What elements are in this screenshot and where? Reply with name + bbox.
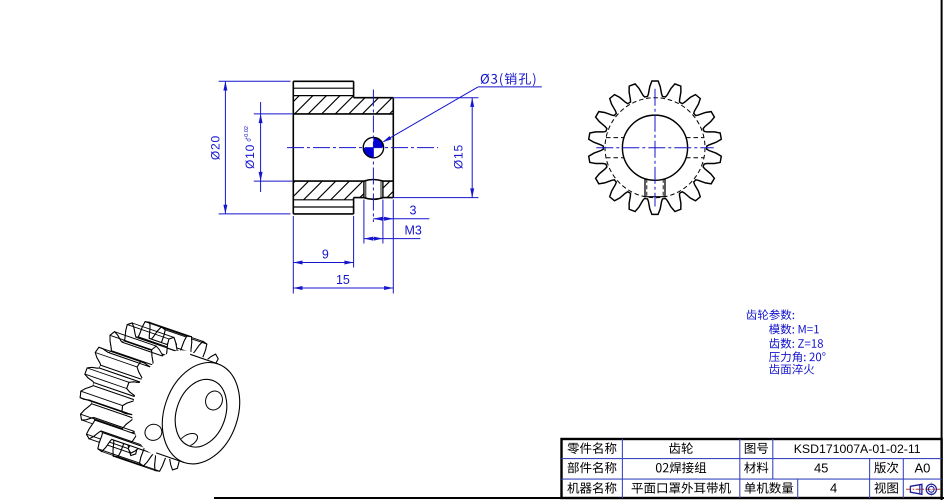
dim M3 line [364, 238, 420, 240]
dim M3 right extension line [382, 200, 384, 244]
dim 15 left arrow [293, 286, 302, 290]
section view: gear left face [292, 81, 294, 214]
gear params line3 [769, 338, 823, 349]
section view: hub top line [354, 97, 394, 99]
svg-text:9: 9 [322, 248, 329, 262]
section view: top tip line [293, 80, 353, 82]
section view: bottom root line [293, 199, 353, 201]
section view: bore top line [293, 113, 393, 115]
section view: top root line [293, 95, 353, 97]
dim M3 left extension line [363, 200, 365, 244]
svg-text:M3: M3 [405, 224, 422, 238]
iso view: bore ellipse [167, 372, 236, 454]
gear params line5 [769, 364, 814, 375]
svg-text:Ø15: Ø15 [452, 144, 466, 169]
pin hole circle [363, 137, 383, 157]
projection symbol inner circle [928, 486, 934, 492]
iso view: far gear face outline [80, 322, 183, 457]
front view: pin hole right hidden lines [686, 137, 704, 139]
dim Phi20 top arrow [223, 81, 227, 90]
front view: root/hub hidden circle [605, 98, 705, 198]
front view: M3 slot outer solid lines [644, 179, 646, 197]
section view: lower hatching [81, 0, 611, 300]
front view horizontal centerline [596, 147, 713, 149]
dim 15 right arrow [384, 286, 393, 290]
section view: M3 hole left minor line [365, 181, 367, 198]
front view: gear teeth outline [589, 81, 722, 214]
dim 9 left arrow [293, 261, 302, 265]
iso view: pin hole on hub surface [143, 422, 164, 443]
label Phi3 pin hole [481, 73, 536, 86]
svg-text:KSD171007A-01-02-11: KSD171007A-01-02-11 [794, 442, 921, 456]
svg-text:A0: A0 [914, 460, 930, 475]
dim Phi10 top arrow [259, 114, 263, 123]
title block col line f [902, 459, 904, 498]
front view: M3 slot minor hidden lines [646, 179, 648, 197]
dim Phi20 bottom arrow [223, 205, 227, 214]
section view: bottom step vertical [353, 198, 355, 214]
projection symbol cone trapezoid [910, 484, 922, 494]
cell 材料 [744, 462, 768, 473]
left face extension line [292, 216, 294, 294]
svg-text:Ø20: Ø20 [209, 135, 223, 160]
svg-text:3: 3 [410, 204, 417, 218]
leader line to pin hole [384, 87, 479, 142]
section view: top pitch line [293, 87, 353, 89]
front view vertical centerline [654, 89, 656, 207]
dim M3 left arrow [364, 237, 373, 241]
dim 15 line [293, 287, 393, 289]
iso view: hub face ellipse [149, 352, 252, 474]
title block col line b [739, 439, 741, 498]
svg-text:4: 4 [830, 481, 837, 496]
pin hole bottom-left blue quadrant [363, 148, 373, 158]
cell 部件名称 [568, 462, 617, 474]
gear params line1 [746, 309, 794, 320]
cell 齿轮 [669, 442, 693, 453]
projection symbol cone base line [919, 485, 921, 494]
front view: bore circle [622, 115, 687, 180]
dim Phi10 bottom arrow [259, 172, 263, 181]
gear params line2 [769, 324, 819, 335]
right face extension line [392, 200, 394, 294]
iso view: tooth flank prisms [113, 440, 166, 471]
cell 版次 [874, 462, 898, 474]
dim Phi15 top arrow [470, 98, 474, 107]
section view: upper hatching [81, 0, 611, 300]
section view: M3 hole right minor line [380, 181, 382, 198]
section view: M3 hole left thread line [363, 181, 365, 198]
gear params line4 [769, 351, 825, 362]
cell 平面口罩外耳带机 [632, 482, 731, 494]
title block border [562, 439, 942, 498]
dim Phi10 top extension line [254, 113, 292, 115]
iso view: root land strips [136, 337, 180, 352]
leader arrowhead [383, 136, 392, 142]
dim Phi15 top extension line [393, 97, 478, 99]
cell 单机数量 [744, 482, 793, 494]
section view: hub bottom line with M3 opening arc [354, 198, 394, 200]
dim Phi15 bottom arrow [470, 188, 474, 197]
title block col line e [869, 459, 871, 498]
title block row line 2 [562, 478, 942, 480]
dim 3 left arrow [373, 217, 382, 221]
front view: M3 slot bottom edge [645, 196, 665, 198]
dim M3 right arrow [374, 237, 383, 241]
front view: pin hole left hidden lines [606, 137, 624, 139]
iso view: hub top tangent line [190, 354, 218, 364]
cell 图号 [745, 443, 768, 454]
cell 02焊接组 [656, 462, 706, 474]
dim Phi15 line [471, 98, 473, 198]
iso view: pin hole exit inside bore [180, 389, 225, 447]
dim Phi10 bottom extension line [254, 180, 292, 182]
svg-text:+0.02: +0.02 [244, 126, 250, 140]
section view: bore bottom line with M3 break-through arc [293, 180, 393, 182]
section view: M3 hole right thread line [382, 181, 384, 198]
svg-text:45: 45 [814, 460, 828, 475]
projection symbol red centerline [906, 488, 940, 490]
step extension line [353, 216, 355, 268]
section view: bottom tip line [293, 213, 353, 215]
sheet frame right border [941, 0, 943, 500]
leader underline [478, 86, 542, 88]
pin hole outline [363, 137, 383, 157]
projection symbol outer circle [926, 484, 936, 494]
iso view: hub cylinder fill [132, 350, 218, 462]
iso view: hub bottom tangent line [156, 453, 184, 463]
dim 3 right arrow [384, 217, 393, 221]
section main axis centerline [287, 147, 438, 149]
dim Phi20 top extension line [219, 80, 291, 82]
projection symbol faint vertical [930, 482, 932, 496]
title block col line a [621, 439, 623, 498]
cell 视图 [874, 482, 897, 493]
svg-text:Ø10: Ø10 [243, 144, 257, 169]
dim Phi20 bottom extension line [219, 213, 291, 215]
section view: hub right face [392, 98, 394, 198]
pin hole top-right blue quadrant [373, 137, 383, 147]
title block col line d [797, 479, 799, 498]
dim 9 right arrow [344, 261, 353, 265]
dim Phi20 line [224, 81, 226, 214]
svg-text:15: 15 [336, 273, 350, 287]
cell 机器名称 [567, 482, 616, 494]
dim 9 line [293, 262, 353, 264]
title block col line c [772, 439, 774, 479]
cell 零件名称 [567, 442, 616, 454]
sheet frame bottom border [214, 497, 944, 499]
pin hole vertical centerline [372, 90, 374, 223]
svg-text:0: 0 [247, 138, 253, 141]
section view: bottom pitch line [293, 206, 353, 208]
dim Phi10 line [260, 102, 262, 192]
title block row line 1 [562, 458, 942, 460]
dim Phi15 bottom extension line [393, 197, 478, 199]
iso view: M3 opening arc inside bore [180, 433, 198, 447]
iso view: near gear face outline [122, 336, 225, 471]
section view: top step vertical [353, 81, 355, 97]
dim 3 line [373, 218, 429, 220]
